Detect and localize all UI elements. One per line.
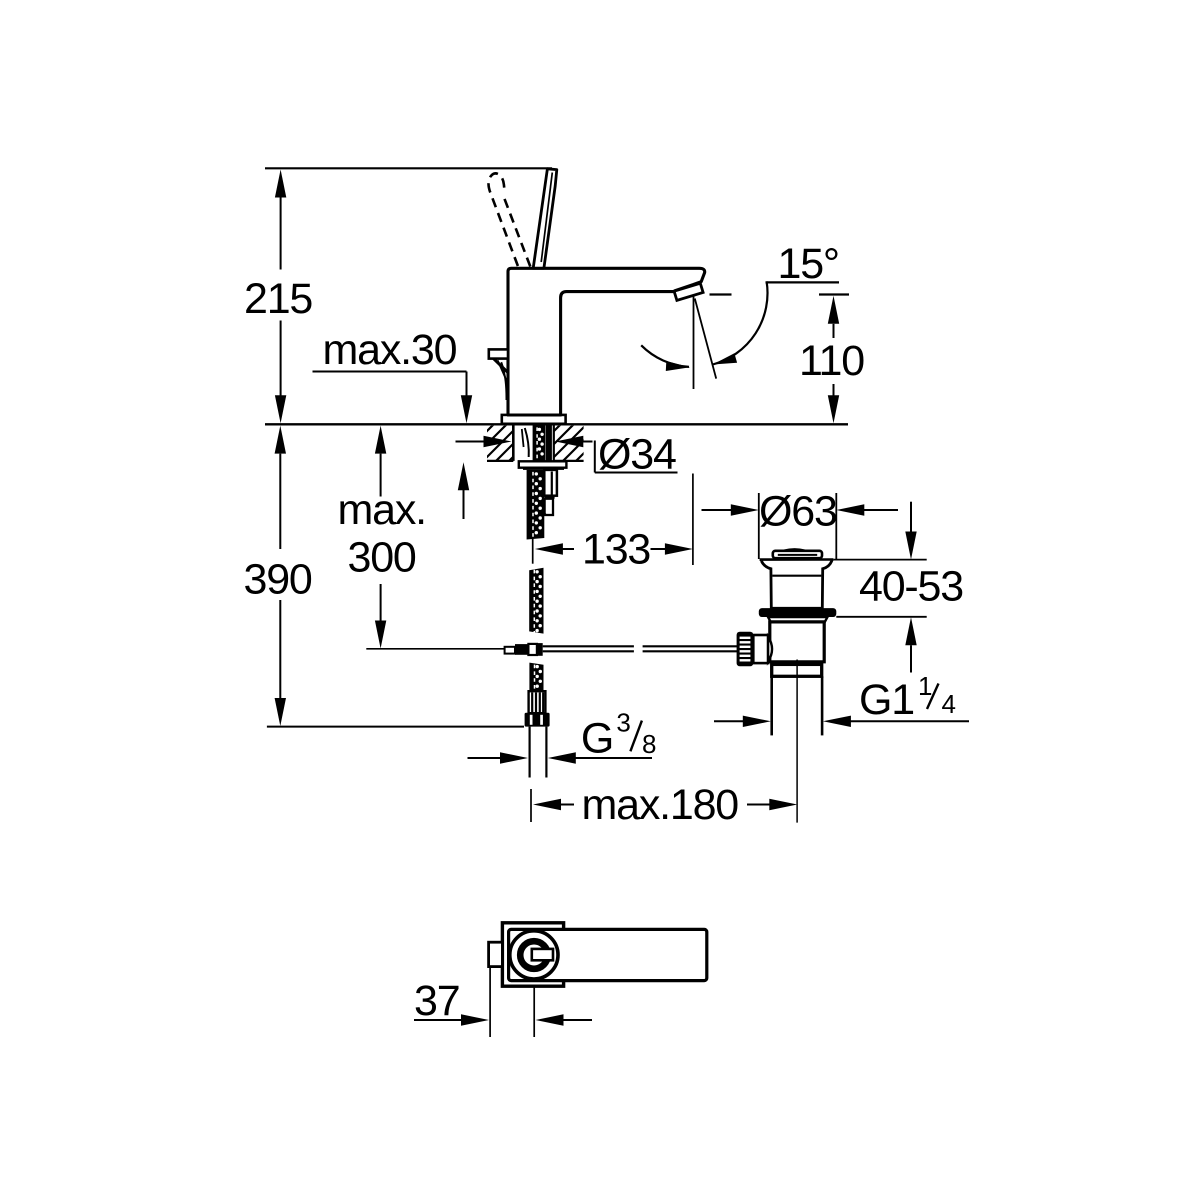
max.300 bottom thin line [366,648,505,650]
pop-up rod guide [544,470,557,496]
top view key slot [532,949,553,960]
drain knob stem [753,635,768,663]
faucet body and spout [508,268,705,415]
svg-text:G1: G1 [859,676,914,724]
G3/8 connection nut [525,713,550,727]
dimension G3/8 arrows [468,757,501,759]
lever handle (solid) [533,169,557,268]
svg-text:215: 215 [244,275,312,323]
braided hose in mounting hole [533,425,545,461]
svg-text:40-53: 40-53 [859,562,963,610]
dimension max.30 line [313,371,467,373]
rod connector at hose [505,647,515,654]
15deg reference line [766,281,840,283]
dimension 390 bottom reference line [267,726,524,728]
supply pipe tails [528,727,530,778]
angle arc right segment [713,281,768,364]
drain knob (knurled) [737,632,754,667]
drain bell neck [761,561,832,609]
dimension 215 reference line (top) [265,167,552,169]
drain tailpipe [770,676,773,735]
dimension G1-1/4 arrows [714,720,743,722]
svg-text:133: 133 [582,526,650,574]
max.180 extension line [530,789,532,822]
drain cap [784,549,805,550]
svg-text:37: 37 [414,977,459,1025]
angle arc left segment [641,345,689,367]
drain locknut lip [768,617,828,622]
aerator (15deg outlet) [674,283,703,300]
dimension O63 arrows [702,509,732,511]
drain bell brim [760,558,834,561]
lever handle alternate position (dashed) [488,173,530,266]
drain body [770,622,824,662]
dimension 133 arrows [535,543,563,554]
top view body square [502,923,563,986]
braided hose lower segment [529,663,543,693]
svg-text:max.180: max.180 [582,781,739,829]
dimension 390 vertical line + arrows [275,426,286,454]
deck surface line [265,423,848,425]
svg-text:Ø63: Ø63 [759,488,837,536]
mounting hole edges [512,425,515,461]
O63 extension lines [758,493,760,559]
top view inner ring [520,941,548,969]
spray vertical line [693,297,695,390]
svg-text:Ø34: Ø34 [598,431,676,479]
braided hose upper segment [527,470,545,540]
110 extension segments [710,293,732,295]
drain centerline [796,660,798,823]
deck underside line [487,460,513,462]
hose end adapter [529,691,546,713]
svg-text:8: 8 [642,729,656,759]
dimension O34 arrows [456,441,485,443]
svg-text:300: 300 [348,534,416,582]
dimension 37 extension lines [489,967,491,1037]
svg-text:G: G [581,715,613,763]
pop-up rod wedge detail [494,359,508,373]
top view side tab [489,942,503,966]
top view lever [509,929,707,980]
spray 15deg line [695,299,716,379]
dimension 110 vertical line + arrows [828,296,839,324]
top view outer circle [510,931,558,979]
mounting nut [519,461,567,467]
dimension 40-53 arrows [910,502,912,532]
pop-up rod tube in hole [545,425,552,461]
drain ring joint [772,664,822,676]
40-53 extension lines [833,559,926,561]
horizontal rod segments [543,645,634,647]
pop-up rod knob tab [489,349,508,358]
svg-text:390: 390 [244,556,312,604]
svg-text:max.: max. [338,486,426,534]
svg-text:max.30: max.30 [323,326,457,374]
dimension 215 vertical line + arrows [275,170,286,198]
svg-text:4: 4 [942,689,956,719]
svg-text:3: 3 [616,708,630,738]
deck thickness arrow (from below) [458,462,469,490]
svg-text:15°: 15° [778,240,839,288]
braided hose middle segment [529,568,543,634]
dimension max.300 vertical line + arrows [375,426,386,454]
O34 leader line [594,441,596,473]
drain flange [759,608,837,617]
dimension 133 extension lines [532,538,534,563]
dimension max.180 arrows [533,799,561,810]
svg-text:110: 110 [799,337,864,385]
anchor bolt lines in hole [522,429,524,447]
dimension 37 arrows [414,1019,462,1021]
faucet base plate [502,415,566,424]
svg-text:1: 1 [918,671,932,701]
